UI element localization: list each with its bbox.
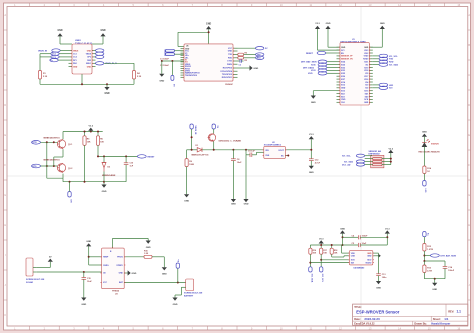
svg-text:IO26: IO26	[341, 76, 345, 78]
wire solar plus	[37, 267, 51, 269]
svg-text:GND: GND	[184, 201, 189, 203]
svg-text:GND: GND	[206, 24, 211, 26]
svg-text:IO0: IO0	[365, 85, 368, 87]
svg-text:IO32: IO32	[341, 67, 345, 69]
svg-text:IO1_SDA: IO1_SDA	[389, 64, 398, 67]
IC U5 CH340C	[181, 44, 238, 86]
resistor R16 10K	[309, 248, 317, 267]
svg-text:IO13: IO13	[341, 91, 345, 93]
net port RTS	[32, 164, 58, 168]
title block	[353, 304, 468, 326]
svg-text:GND: GND	[102, 191, 107, 193]
IC U4 BME280	[349, 251, 372, 270]
net label CC2	[51, 55, 69, 59]
svg-text:10K: 10K	[87, 142, 91, 144]
svg-text:SCK: SCK	[364, 99, 369, 101]
svg-text:V3.3: V3.3	[385, 228, 390, 230]
svg-text:IO1_SDA: IO1_SDA	[310, 274, 313, 283]
svg-text:GND: GND	[311, 102, 316, 104]
svg-text:V3.3: V3.3	[319, 238, 324, 240]
net port LED	[423, 181, 427, 194]
svg-text:IO35: IO35	[341, 64, 345, 66]
svg-text:K: K	[4, 313, 6, 317]
svg-text:SCK: SCK	[351, 260, 356, 262]
svg-text:1.2K: 1.2K	[144, 253, 149, 255]
net label RESET	[137, 155, 155, 159]
resistor R15 1.2K	[124, 250, 164, 267]
right net label D- oval	[96, 55, 104, 58]
svg-text:D: D	[4, 103, 6, 107]
svg-text:C3: C3	[239, 65, 241, 67]
svg-text:GND: GND	[367, 253, 372, 255]
svg-text:VDDIO: VDDIO	[365, 262, 372, 264]
svg-text:E: E	[4, 133, 6, 137]
svg-text:IO5: IO5	[365, 73, 368, 75]
svg-text:CLK: CLK	[341, 102, 346, 104]
svg-text:DN1: DN1	[73, 63, 77, 65]
wire top pin to GND	[113, 238, 149, 243]
net port B+	[176, 259, 180, 283]
GND flag below-left of ESP32	[311, 96, 316, 105]
svg-text:SENSOR_VP: SENSOR_VP	[341, 56, 353, 58]
svg-text:Sheet:: Sheet:	[433, 317, 441, 321]
resistor network RN1	[365, 150, 392, 168]
svg-text:PROG: PROG	[117, 257, 123, 259]
wire	[60, 43, 72, 45]
svg-text:TXD/GPIO2: TXD/GPIO2	[222, 74, 232, 76]
svg-text:SENSOR_VN: SENSOR_VN	[341, 59, 353, 61]
GND flag top-right of USB	[100, 30, 105, 44]
GND flag below C1	[159, 61, 164, 83]
svg-text:DHT_BAT_MON: DHT_BAT_MON	[301, 61, 317, 64]
net port DTR	[32, 141, 58, 145]
svg-text:IO25: IO25	[341, 73, 345, 75]
frame ticks right	[468, 30, 471, 300]
svg-text:V3.3: V3.3	[315, 23, 320, 25]
svg-text:100nF: 100nF	[362, 235, 369, 237]
power flag V3.3 above ESP32	[315, 23, 321, 50]
svg-text:GND: GND	[364, 102, 369, 104]
net label VBUS_IN_R	[96, 62, 135, 66]
svg-text:GND: GND	[326, 23, 331, 25]
svg-text:ESP-WROVER Sensor: ESP-WROVER Sensor	[356, 310, 399, 315]
GND flag right of CH340	[238, 65, 259, 70]
svg-text:C: C	[468, 73, 470, 77]
resistor R6 10K	[96, 136, 104, 157]
wire Q collector to IO0 port	[69, 182, 71, 192]
svg-text:BATTERY: BATTERY	[184, 294, 194, 297]
svg-text:MMBT4401WT1G: MMBT4401WT1G	[44, 158, 61, 161]
svg-text:1/1: 1/1	[444, 317, 449, 321]
capacitor C8 10uF	[231, 150, 242, 199]
GND flag below divider	[432, 283, 437, 291]
connector CN2 battery	[184, 279, 203, 297]
svg-text:IO18: IO18	[364, 70, 368, 72]
net label RXD	[256, 56, 264, 60]
net label IO0	[373, 86, 393, 90]
net port V3 below C2	[171, 61, 175, 87]
resistor R9 100K	[185, 150, 195, 194]
net label DHT_DATA left	[342, 163, 365, 167]
svg-text:4.7uF: 4.7uF	[315, 161, 321, 164]
svg-text:1.07M: 1.07M	[427, 249, 433, 251]
svg-text:Date:: Date:	[354, 317, 361, 321]
svg-text:VBUS_IN: VBUS_IN	[194, 126, 196, 135]
svg-text:DC1_AD: DC1_AD	[342, 163, 351, 166]
svg-text:C9 1uF: C9 1uF	[248, 151, 255, 153]
bottom rail of divider	[424, 278, 445, 283]
svg-text:100n: 100n	[382, 277, 387, 279]
svg-text:TNOW/GPIO0: TNOW/GPIO0	[185, 75, 197, 77]
svg-text:TEMP: TEMP	[103, 257, 109, 259]
svg-text:GND: GND	[100, 30, 105, 32]
svg-text:C1 100nF: C1 100nF	[160, 58, 170, 60]
net label TXD	[256, 53, 264, 57]
svg-text:VSS: VSS	[265, 155, 270, 157]
svg-text:RTS: RTS	[33, 166, 38, 168]
GND flag below R9	[184, 194, 189, 202]
net label IO1_SDA	[373, 63, 399, 67]
svg-text:GND: GND	[173, 304, 178, 306]
net label IO1_SDA left	[344, 160, 365, 164]
svg-text:EasyEDA V5.9.22: EasyEDA V5.9.22	[354, 323, 375, 326]
net port B+ top	[423, 232, 429, 244]
net label IO25	[308, 72, 337, 75]
svg-text:H: H	[4, 223, 6, 227]
svg-text:V3.3: V3.3	[389, 148, 394, 150]
svg-text:GND: GND	[340, 228, 345, 230]
capacitor C3	[238, 59, 244, 66]
power flag V3.3 right of BME280	[385, 228, 391, 245]
resistor R3	[238, 57, 256, 62]
svg-text:IO33: IO33	[341, 70, 345, 72]
svg-text:100nF: 100nF	[448, 270, 455, 272]
svg-text:CH340C: CH340C	[225, 83, 233, 86]
svg-text:LED: LED	[424, 189, 426, 194]
svg-text:GND: GND	[432, 289, 437, 291]
GND flag above TP4056	[86, 241, 91, 265]
svg-text:SCREW-M-SLT-10N: SCREW-M-SLT-10N	[26, 279, 45, 281]
USB connector USB1 TYPE-C-31-M-12	[69, 40, 96, 74]
wires into BME280	[310, 253, 349, 263]
svg-text:C: C	[4, 73, 6, 77]
right net label D+ oval	[96, 52, 104, 55]
right net label GND oval	[96, 49, 104, 52]
resistor R18 10K	[330, 248, 338, 257]
svg-text:SD2: SD2	[341, 93, 345, 95]
svg-text:VCC: VCC	[228, 48, 233, 50]
GND flag above ESP32 right	[380, 23, 385, 47]
svg-text:GND: GND	[87, 66, 92, 68]
svg-text:DMG3415U_C_1T(R)NB: DMG3415U_C_1T(R)NB	[219, 140, 242, 143]
capacitor C13 100n	[376, 274, 387, 281]
svg-text:GND: GND	[376, 287, 381, 289]
capacitor C10 1uF	[104, 156, 134, 181]
svg-text:MBR120VLSFT1G: MBR120VLSFT1G	[192, 155, 209, 157]
svg-text:GND: GND	[367, 256, 372, 258]
svg-text:GND: GND	[231, 203, 236, 205]
resistor R13 4.7M	[423, 261, 432, 279]
wires left of USB	[40, 53, 51, 55]
svg-text:IO17: IO17	[364, 76, 368, 78]
diode D3 MMBD4148SE	[102, 156, 116, 184]
GND flag below battery connector	[172, 298, 177, 307]
svg-text:RI#/GPIO5: RI#/GPIO5	[223, 68, 232, 70]
svg-text:10K: 10K	[100, 142, 104, 144]
wire solar minus	[37, 271, 102, 273]
GND flag above LED	[422, 132, 427, 143]
svg-text:SENSOR_AB: SENSOR_AB	[369, 150, 382, 153]
svg-text:RED 0603RC REDLITE: RED 0603RC REDLITE	[419, 151, 441, 153]
GND flag above ESP32 left	[325, 23, 330, 47]
net label IO35	[311, 63, 337, 67]
svg-text:RESET: RESET	[148, 156, 156, 158]
frame ticks left	[4, 30, 8, 300]
svg-text:SOLAR: SOLAR	[26, 281, 34, 284]
svg-text:5.1K: 5.1K	[137, 76, 142, 78]
svg-text:GND: GND	[86, 241, 91, 243]
svg-text:GND: GND	[87, 50, 92, 52]
BAT wire	[124, 282, 186, 284]
svg-text:STATUS: STATUS	[431, 143, 439, 146]
svg-text:DCD#/GPIO4: DCD#/GPIO4	[221, 70, 233, 73]
transistor Q2 DMG3415U	[208, 134, 242, 150]
net flag solar plus	[48, 257, 53, 268]
svg-text:1.1: 1.1	[457, 310, 462, 314]
wire	[318, 49, 341, 51]
wire	[328, 46, 340, 48]
net port 5V	[212, 124, 218, 134]
resistor R12 1.07M	[423, 244, 433, 262]
svg-text:GND: GND	[244, 203, 249, 205]
svg-text:IO2: IO2	[365, 88, 368, 90]
svg-text:STDBY: STDBY	[116, 265, 123, 267]
GND flag above CH340	[206, 24, 211, 33]
svg-text:IO21: IO21	[364, 62, 368, 64]
svg-text:G: G	[4, 193, 6, 197]
frame ticks bottom	[30, 326, 445, 330]
svg-text:SD3: SD3	[341, 96, 345, 98]
svg-text:RESET: RESET	[306, 53, 314, 55]
svg-text:E: E	[468, 133, 470, 137]
svg-text:IO12: IO12	[341, 85, 345, 87]
net port IO1_SDA	[309, 267, 314, 283]
svg-text:SDO: SDO	[367, 260, 372, 262]
sheet fold line horizontal	[7, 175, 468, 177]
svg-text:GND: GND	[146, 247, 151, 249]
svg-text:MMBT4401WT1G: MMBT4401WT1G	[44, 136, 61, 139]
wires right of BME280	[373, 253, 381, 274]
svg-text:LED: LED	[389, 85, 394, 87]
svg-text:VBUS_IN: VBUS_IN	[38, 51, 48, 53]
net label VBUS_IN	[38, 49, 69, 53]
power flag V3.3 above resistors	[319, 238, 325, 245]
capacitor C5 10uF	[342, 243, 388, 247]
svg-text:GND: GND	[228, 51, 233, 53]
svg-text:VDD: VDD	[351, 253, 356, 255]
svg-text:TXD: TXD	[389, 59, 394, 61]
net label IO1_SCL left	[342, 154, 365, 158]
svg-text:SBU1: SBU1	[86, 63, 91, 65]
svg-text:SDI: SDI	[351, 262, 355, 264]
svg-text:CC2: CC2	[73, 57, 77, 59]
wire to TEMP pin	[89, 256, 102, 258]
svg-text:GND: GND	[57, 30, 62, 32]
svg-text:TXD: TXD	[228, 54, 232, 56]
wire VCC loop	[178, 31, 210, 46]
connector CN1 solar	[26, 258, 45, 284]
svg-text:DTR: DTR	[33, 142, 38, 144]
transistor Q1.2 MMBT4401	[44, 158, 74, 172]
GND flag below USB	[104, 84, 109, 95]
svg-text:10uF: 10uF	[362, 243, 367, 245]
sheet fold line vertical	[360, 7, 362, 327]
svg-text:IO22: IO22	[364, 53, 368, 55]
svg-text:DHT_DATA: DHT_DATA	[303, 66, 314, 69]
capacitor C9 1uF	[246, 150, 264, 199]
GND flag top-left of USB	[57, 30, 62, 44]
capacitor C15 10uF	[82, 272, 93, 298]
svg-text:CMD: CMD	[341, 99, 346, 101]
net label IO1_SCL	[373, 54, 399, 58]
svg-text:RXD: RXD	[389, 62, 394, 64]
svg-text:GND: GND	[364, 47, 369, 49]
svg-text:VBUS: VBUS	[86, 54, 92, 56]
net label DHT_BAT_MON	[424, 254, 456, 258]
svg-text:G: G	[468, 193, 470, 197]
net label 5V right of CH340	[238, 47, 269, 51]
top rail to pullups	[63, 131, 103, 136]
pin number nubs	[71, 47, 374, 282]
svg-text:GND: GND	[104, 93, 109, 95]
svg-text:CHRG: CHRG	[103, 265, 109, 267]
ESD array on USB data lines	[165, 49, 184, 56]
svg-text:B: B	[4, 43, 6, 47]
svg-text:10uF: 10uF	[87, 281, 92, 283]
svg-text:GND: GND	[159, 81, 164, 83]
svg-text:H: H	[468, 223, 470, 227]
net port IO0 below transistors	[63, 178, 71, 203]
svg-text:SD0: SD0	[365, 96, 369, 98]
svg-text:R3: R3	[245, 60, 247, 62]
svg-text:VIN: VIN	[265, 150, 269, 152]
RESET rail	[97, 155, 137, 157]
GND flag below C12	[309, 166, 314, 174]
svg-text:VOUT: VOUT	[278, 150, 284, 152]
svg-text:RXD: RXD	[228, 58, 233, 60]
net port IO1_SCL	[320, 267, 324, 283]
net label RXD	[373, 60, 394, 64]
wire	[369, 46, 382, 48]
svg-text:GND: GND	[132, 273, 137, 275]
svg-text:Harald Kreuzer: Harald Kreuzer	[431, 322, 450, 326]
svg-text:RXD: RXD	[257, 58, 262, 60]
wire	[92, 43, 103, 45]
wire decoupling rail	[161, 60, 184, 62]
net port VBUS_IN	[190, 124, 196, 150]
svg-text:IO16: IO16	[364, 79, 368, 81]
net label RESET	[306, 51, 337, 55]
svg-text:IO23: IO23	[364, 50, 368, 52]
svg-text:GND: GND	[73, 66, 78, 68]
bottom ground rail of USB	[40, 74, 134, 85]
svg-text:DHT_BAT_MON: DHT_BAT_MON	[441, 254, 457, 257]
net label CC1	[51, 52, 69, 56]
svg-text:IO27: IO27	[341, 79, 345, 81]
net label TXD	[373, 57, 394, 61]
svg-text:U4 BME280: U4 BME280	[353, 267, 365, 270]
LED D2 STATUS	[419, 139, 441, 166]
capacitor C12 4.7uF	[309, 159, 321, 166]
svg-text:GND: GND	[119, 272, 124, 274]
svg-text:REV:: REV:	[448, 309, 454, 313]
svg-text:3V3: 3V3	[341, 50, 344, 52]
svg-text:IO1_SCL: IO1_SCL	[321, 274, 323, 283]
IO0 rail	[63, 181, 104, 183]
resistor R5 10K	[83, 136, 91, 182]
svg-text:U5: U5	[186, 45, 188, 47]
parallel RC top rail	[423, 260, 445, 267]
svg-text:GND: GND	[162, 274, 167, 276]
IC U3 TP4056	[102, 244, 125, 296]
GND flag right of top wire	[146, 241, 151, 249]
capacitor C4 100nF	[343, 234, 388, 239]
svg-text:DP1: DP1	[73, 60, 77, 62]
svg-text:2023-02-20: 2023-02-20	[364, 317, 380, 321]
svg-text:GND: GND	[422, 132, 427, 134]
svg-text:5.1K: 5.1K	[43, 76, 48, 78]
module U1 ESP32-WROVER-E	[337, 39, 373, 105]
resistor R2	[238, 53, 256, 56]
resistor R4 5.1K	[132, 63, 141, 79]
net label DHT_DATA	[303, 66, 337, 70]
svg-text:RXD/GPIO1: RXD/GPIO1	[222, 77, 232, 79]
svg-text:GND: GND	[253, 68, 258, 70]
svg-text:GND: GND	[81, 304, 86, 306]
GND flag below R15	[162, 267, 167, 275]
GND flag below C8	[231, 199, 236, 205]
net label USB_D	[50, 58, 69, 62]
svg-text:DP2: DP2	[87, 57, 91, 59]
svg-text:4.7M: 4.7M	[427, 269, 432, 272]
power flag V3.3 above RN1	[388, 148, 394, 153]
diode D1 MBR120	[187, 145, 264, 157]
svg-text:A: A	[4, 13, 6, 17]
svg-text:CC1: CC1	[73, 54, 77, 56]
GND flag below C15	[81, 298, 86, 307]
GND flag below diode	[101, 185, 106, 194]
svg-text:D: D	[468, 103, 470, 107]
svg-text:GND: GND	[309, 172, 314, 174]
svg-text:GND: GND	[341, 47, 346, 49]
svg-text:K: K	[468, 313, 470, 317]
svg-text:100K: 100K	[189, 164, 194, 166]
svg-text:V3.3: V3.3	[309, 134, 314, 136]
svg-text:IO1_SDA: IO1_SDA	[344, 160, 353, 163]
svg-text:TXD0: TXD0	[363, 56, 368, 58]
svg-text:IO15: IO15	[364, 91, 368, 93]
GND flag below C9	[243, 199, 248, 205]
net label DHT_BAT_MON	[301, 60, 337, 64]
regulator U2 XC6206P332MR	[264, 142, 312, 158]
frame ticks top	[30, 3, 445, 7]
svg-text:V3.3: V3.3	[89, 125, 94, 127]
power flag V3.3 at regulator output	[309, 134, 315, 159]
wire to CE pin	[89, 264, 102, 266]
GND flag right of CE/GND pin	[124, 270, 137, 275]
svg-text:10uF: 10uF	[237, 162, 242, 164]
wire battery minus	[175, 287, 186, 297]
